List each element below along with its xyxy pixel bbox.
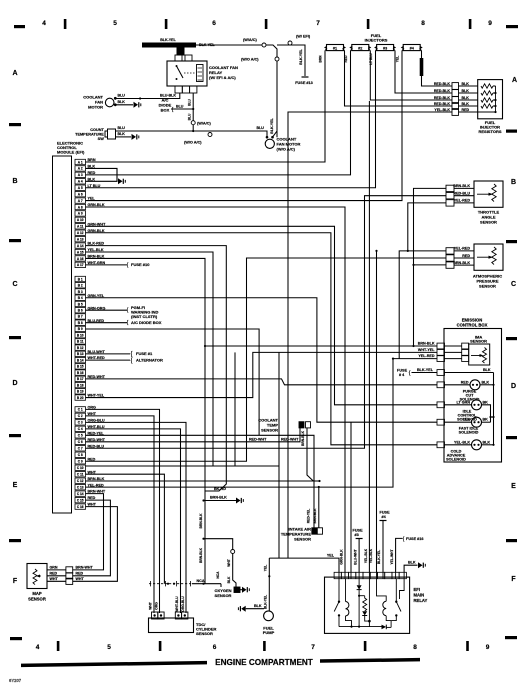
- svg-text:RED: RED: [462, 254, 470, 258]
- relay internals: [334, 579, 404, 630]
- svg-text:RED: RED: [76, 572, 84, 576]
- svg-text:BLK-YEL: BLK-YEL: [299, 48, 303, 64]
- MAP sensor: [27, 564, 93, 602]
- wire C16 WHT to MAP sensor: [73, 507, 118, 582]
- svg-text:B 8: B 8: [78, 321, 83, 325]
- svg-text:GRN: GRN: [50, 566, 58, 570]
- fast idle solenoid: [445, 417, 491, 434]
- wire B17 RED-WHT to purge cut solenoid: [86, 379, 438, 385]
- svg-text:RED-BLK: RED-BLK: [434, 89, 451, 93]
- svg-text:FUSE #13: FUSE #13: [295, 81, 313, 85]
- svg-text:(W/O A/C): (W/O A/C): [184, 141, 202, 145]
- svg-text:WHT: WHT: [227, 559, 231, 567]
- wire C11 WHT NCA: [86, 474, 165, 584]
- svg-text:YEL-WHT: YEL-WHT: [390, 549, 394, 564]
- svg-text:C 2: C 2: [78, 414, 83, 418]
- emission box connector pin: [437, 419, 445, 425]
- svg-text:WHT-YEL: WHT-YEL: [418, 348, 435, 352]
- ECM pin B18: [75, 382, 86, 387]
- A/C diode box stub: [171, 108, 193, 110]
- svg-text:YEL-BLK: YEL-BLK: [454, 440, 470, 444]
- svg-text:6Y207: 6Y207: [9, 678, 22, 683]
- svg-text:C 10: C 10: [77, 466, 84, 470]
- svg-text:A 17: A 17: [77, 263, 84, 267]
- svg-text:SENSOR: SENSOR: [196, 631, 213, 636]
- ECM pin B17: [75, 376, 86, 381]
- emission box connector pin: [437, 370, 445, 376]
- YEL-BLK wire resistor row 5: [288, 112, 452, 558]
- svg-text:MOTOR: MOTOR: [88, 105, 103, 110]
- svg-text:8: 8: [421, 20, 425, 27]
- wire feed to EFI relay cell 6: [376, 251, 378, 572]
- wire BRN-BLK common to IMA sensor: [205, 345, 437, 347]
- fuel pump: [238, 558, 274, 635]
- ground motor1: [134, 102, 141, 108]
- svg-text:(W/A/C): (W/A/C): [243, 38, 257, 42]
- svg-text:BLK: BLK: [408, 560, 416, 564]
- svg-text:B 13: B 13: [77, 352, 84, 356]
- svg-text:SOLENOID: SOLENOID: [446, 457, 466, 461]
- svg-text:BLK: BLK: [118, 100, 126, 104]
- resistor element: [481, 91, 493, 95]
- emission box connector pin: [437, 442, 445, 448]
- svg-text:5: 5: [113, 20, 117, 27]
- svg-text:RED-BLK: RED-BLK: [434, 82, 451, 86]
- ECM pin A8: [75, 204, 86, 209]
- svg-text:BLK-YEL: BLK-YEL: [160, 38, 176, 42]
- svg-text:B 14: B 14: [77, 358, 84, 362]
- svg-text:BK: BK: [483, 400, 489, 404]
- BLK vertical net: [493, 373, 495, 445]
- svg-text:BRN-WHT: BRN-WHT: [76, 566, 94, 570]
- ECM pin A17: [75, 262, 86, 267]
- wire B8 BLU-RED to A/C diode box: [86, 322, 128, 324]
- svg-text:YEL-RED: YEL-RED: [454, 247, 471, 251]
- svg-text:BRN: BRN: [319, 55, 323, 63]
- emission box connector pin: [437, 350, 445, 356]
- ECM pin B15: [75, 364, 86, 369]
- svg-text:WHT: WHT: [149, 602, 153, 610]
- svg-text:7: 7: [311, 644, 315, 651]
- throttle angle sensor: [446, 181, 503, 225]
- svg-text:SENSOR: SENSOR: [28, 596, 46, 601]
- svg-text:WHT-BLU: WHT-BLU: [175, 596, 179, 612]
- svg-text:A 2: A 2: [78, 167, 83, 171]
- svg-text:PUMP: PUMP: [263, 630, 275, 635]
- svg-text:RED-YEL: RED-YEL: [307, 509, 311, 523]
- wire C14 BRN-WHT to MAP sensor: [73, 494, 104, 570]
- coolant fan relay box U1: [167, 61, 207, 86]
- wire C5 RED-YEL to intake air temp sensor: [86, 435, 315, 527]
- svg-text:BOX: BOX: [161, 108, 170, 113]
- svg-text:B 16: B 16: [77, 371, 84, 375]
- svg-text:YEL-RED: YEL-RED: [418, 354, 435, 358]
- svg-text:BLK: BLK: [462, 82, 470, 86]
- svg-text:BLK: BLK: [482, 380, 490, 384]
- svg-text:BRN-BLK: BRN-BLK: [199, 547, 203, 563]
- ECM pin A6: [75, 191, 86, 196]
- svg-text:ORG-BLU: ORG-BLU: [181, 596, 185, 612]
- wire A15 YEL-BLK: [86, 252, 214, 466]
- svg-text:SENSOR: SENSOR: [294, 536, 311, 541]
- svg-text:BRN-BLK: BRN-BLK: [199, 513, 203, 529]
- svg-text:C 11: C 11: [77, 473, 84, 477]
- ECM pin C9: [75, 459, 86, 464]
- svg-text:YEL: YEL: [463, 418, 471, 422]
- connector (W/A/C) on relay wire: [191, 121, 195, 125]
- wire A7 YEL to injector 4: [86, 51, 403, 201]
- svg-text:YEL: YEL: [396, 56, 400, 62]
- YEL-BLK wire to EFI main relay: [368, 101, 370, 572]
- wire BRN-BLK sensor ground link throttle down: [414, 188, 447, 346]
- svg-text:{: {: [130, 352, 132, 358]
- svg-text:SENSOR: SENSOR: [261, 428, 278, 433]
- BLK to ground: [404, 565, 417, 572]
- wire A16 BRN-BLK sensor ground: [86, 258, 206, 583]
- ECM pin C15: [75, 497, 86, 502]
- svg-text:E: E: [511, 483, 516, 490]
- ground sensor shield: [236, 498, 243, 504]
- svg-text:#1: #1: [333, 47, 337, 51]
- relay coil: [197, 65, 204, 82]
- ECM pin B9: [75, 326, 86, 331]
- ground temp sw: [132, 134, 139, 140]
- svg-text:FUSE: FUSE: [380, 511, 391, 515]
- wire motor1 BLU / BLU-BLK to relay: [115, 93, 180, 99]
- ECM pin C8: [75, 452, 86, 457]
- svg-text:BRN-BLK: BRN-BLK: [313, 508, 317, 524]
- svg-text:B 1: B 1: [78, 277, 83, 281]
- svg-text:C 16: C 16: [77, 505, 84, 509]
- svg-text:A: A: [512, 77, 517, 84]
- svg-text:BLK: BLK: [462, 102, 470, 106]
- svg-text:C 6: C 6: [78, 440, 83, 444]
- wire C15 RED to MAP sensor: [73, 500, 111, 576]
- fuel injector resistors box: [478, 80, 503, 119]
- ECM pin A14: [75, 243, 86, 248]
- wire temp sw BLK to ground: [116, 136, 132, 138]
- svg-text:{: {: [130, 358, 132, 364]
- ECM pin A12: [75, 230, 86, 235]
- svg-text:YEL-BLK: YEL-BLK: [369, 548, 373, 563]
- connector (W/O A/C) hanging: [208, 133, 212, 137]
- svg-text:BLU: BLU: [176, 104, 184, 108]
- svg-text:NCA: NCA: [197, 579, 205, 583]
- svg-text:YEL: YEL: [327, 554, 335, 558]
- wire A12 GRN-BLK to cold advance solenoid: [86, 233, 438, 445]
- svg-text:B 6: B 6: [78, 309, 83, 313]
- twisted pair marker: [149, 583, 192, 585]
- fuse 13: [302, 76, 309, 78]
- coolant fan motor M1: [105, 98, 114, 107]
- ECM pin B2: [75, 283, 86, 288]
- svg-text:A 1: A 1: [78, 160, 83, 164]
- svg-text:BLK: BLK: [118, 132, 126, 136]
- thick wire segment injector 4: [420, 58, 424, 76]
- svg-text:ENGINE COMPARTMENT: ENGINE COMPARTMENT: [215, 658, 313, 667]
- wire C3 ORG-BLU to TDC sensor: [86, 422, 187, 613]
- wire C2 WHT to TDC sensor: [86, 416, 155, 613]
- svg-text:4: 4: [42, 20, 46, 27]
- wire A2 BLK / A4 BLK to ground: [86, 168, 118, 181]
- svg-text:{: {: [409, 370, 411, 376]
- resistor element: [481, 104, 493, 108]
- title ENGINE COMPARTMENT: [21, 658, 420, 667]
- svg-text:C 15: C 15: [77, 498, 84, 502]
- ECM pin C13: [75, 484, 86, 489]
- svg-text:BLK-YEL: BLK-YEL: [417, 368, 434, 372]
- svg-text:B 20: B 20: [77, 396, 84, 400]
- wire link vertical to YEL wire: [278, 352, 280, 558]
- ECM pin C7: [75, 446, 86, 451]
- svg-text:RED-BLU: RED-BLU: [453, 192, 470, 196]
- svg-text:(W/ EFI & A/C): (W/ EFI & A/C): [209, 75, 236, 80]
- svg-text:C 7: C 7: [78, 447, 83, 451]
- ECM pin B20: [75, 395, 86, 400]
- wire A14 BLK-RED: [86, 246, 227, 491]
- svg-text:MODULE (EFI): MODULE (EFI): [57, 150, 85, 155]
- svg-text:FUSE #10: FUSE #10: [131, 262, 150, 267]
- svg-text:B 11: B 11: [77, 340, 84, 344]
- intake air temperature sensor: [281, 486, 323, 541]
- ECM pin A11: [75, 224, 86, 229]
- emission box connector pin: [437, 343, 445, 349]
- ECM pin B1: [75, 276, 86, 281]
- ECM pin A1: [75, 159, 86, 164]
- svg-text:B: B: [511, 179, 516, 186]
- ECM pin C3: [75, 420, 86, 425]
- svg-text:CONTROL BOX: CONTROL BOX: [457, 323, 488, 328]
- coolant fan relay bus bar BLK-YEL: [142, 43, 196, 48]
- svg-text:BLK: BLK: [462, 96, 470, 100]
- NCA wire: [192, 583, 221, 585]
- svg-text:BLK-YEL: BLK-YEL: [263, 595, 267, 609]
- svg-text:9: 9: [486, 644, 490, 651]
- svg-text:SENSOR: SENSOR: [470, 339, 487, 344]
- resistor connector column: [452, 83, 459, 90]
- wire C9 RED to atmospheric pressure sensor: [86, 258, 447, 461]
- svg-text:(W/O A/C): (W/O A/C): [277, 147, 296, 152]
- wire motor1 BLK to ground: [115, 104, 133, 106]
- svg-text:B: B: [12, 178, 17, 185]
- svg-text:BLU: BLU: [118, 94, 126, 98]
- svg-text:BLU: BLU: [257, 126, 265, 130]
- ECM pin B7: [75, 314, 86, 319]
- wire A1 BRN to injector 1: [86, 51, 326, 162]
- oxygen sensor: [199, 513, 249, 598]
- fuse 16 callout YEL-WHT: [396, 538, 403, 572]
- svg-text:7: 7: [316, 20, 320, 27]
- svg-text:FUSE #1: FUSE #1: [136, 351, 153, 356]
- svg-text:A 3: A 3: [78, 173, 83, 177]
- ECM pin C11: [75, 472, 86, 477]
- svg-text:SENSOR: SENSOR: [480, 220, 497, 225]
- wire temp sw BLU to fan motor 2: [116, 131, 268, 137]
- svg-text:C: C: [12, 281, 17, 288]
- svg-text:RED-BLK: RED-BLK: [434, 102, 451, 106]
- svg-text:YEL-BLK: YEL-BLK: [434, 108, 450, 112]
- wire BRN-BLK branch to atmospheric sensor: [414, 264, 447, 266]
- svg-text:A 14: A 14: [77, 244, 84, 248]
- svg-text:5: 5: [107, 644, 111, 651]
- ECM pin A16: [75, 256, 86, 261]
- svg-text:BLU-WHT: BLU-WHT: [353, 549, 357, 564]
- svg-text:#3: #3: [355, 533, 359, 537]
- electronic control module (EFI) box: [53, 156, 72, 513]
- wire A17 WHT-GRN to fuse 10: [86, 264, 128, 266]
- ground fuel pump: [238, 606, 245, 612]
- ECM pin B14: [75, 357, 86, 362]
- atmospheric pressure sensor: [446, 244, 503, 289]
- TDC / cylinder sensor: [149, 596, 217, 636]
- svg-text:(W/ EFI): (W/ EFI): [296, 35, 311, 39]
- wire A3 RED to injector 2: [86, 51, 351, 175]
- ECM pin A2: [75, 166, 86, 171]
- svg-text:GRN-BLK: GRN-BLK: [339, 549, 343, 565]
- svg-text:BK-RD: BK-RD: [214, 487, 226, 491]
- wire B14 WHT-RED to alternator: [86, 359, 131, 361]
- svg-text:A 15: A 15: [77, 250, 84, 254]
- fuel injector #1: [327, 45, 344, 51]
- svg-text:BK: BK: [483, 418, 489, 422]
- svg-text:BRN-BLK: BRN-BLK: [88, 477, 105, 481]
- wire C13 YEL-RED to IMA sensor: [86, 359, 438, 488]
- svg-text:BRN-BLK: BRN-BLK: [453, 261, 470, 265]
- coolant temperature switch: [105, 129, 116, 139]
- svg-text:C 9: C 9: [78, 460, 83, 464]
- svg-text:#2: #2: [358, 47, 362, 51]
- svg-text:C 3: C 3: [78, 421, 83, 425]
- ECM pin C12: [75, 478, 86, 483]
- svg-text:C 8: C 8: [78, 453, 83, 457]
- svg-text:RED: RED: [461, 380, 469, 384]
- emission box connector pin: [437, 382, 445, 388]
- connector (W/A/C): [262, 43, 266, 47]
- purge cut solenoid: [445, 380, 495, 402]
- svg-text:B 10: B 10: [77, 333, 84, 337]
- ECM pin A3: [75, 172, 86, 177]
- emission control box: [444, 329, 502, 463]
- svg-text:#3: #3: [383, 47, 387, 51]
- svg-text:F: F: [13, 578, 18, 585]
- svg-text:B 18: B 18: [77, 383, 84, 387]
- wire C12 BRN-BLK sensor ground run: [86, 480, 320, 482]
- svg-text:RELAY: RELAY: [414, 598, 428, 603]
- connector (W/ EFI): [288, 41, 292, 45]
- svg-text:RED: RED: [50, 572, 58, 576]
- ECM pin A10: [75, 217, 86, 222]
- svg-text:LT BLU: LT BLU: [369, 53, 373, 65]
- svg-text:LT GRN: LT GRN: [457, 400, 471, 404]
- wire C4 WHT-BLU to TDC sensor: [86, 429, 181, 613]
- svg-text:B 15: B 15: [77, 365, 84, 369]
- svg-text:A 9: A 9: [78, 212, 83, 216]
- svg-text:B 7: B 7: [78, 315, 83, 319]
- svg-text:A 12: A 12: [77, 231, 84, 235]
- svg-text:B 17: B 17: [77, 377, 84, 381]
- ECM pin B13: [75, 351, 86, 356]
- ECM pin C5: [75, 433, 86, 438]
- svg-text:C: C: [511, 281, 516, 288]
- wire A11 GRN-WHT to idle control solenoid: [86, 226, 438, 404]
- svg-text:SW: SW: [98, 137, 105, 141]
- svg-text:BLK: BLK: [254, 604, 262, 608]
- ECM pin A4: [75, 179, 86, 184]
- svg-text:6: 6: [213, 644, 217, 651]
- svg-text:ORG: ORG: [154, 602, 158, 610]
- svg-text:WHT: WHT: [76, 577, 85, 581]
- svg-text:C 14: C 14: [77, 492, 84, 496]
- wire B9 row down middle: [86, 329, 260, 435]
- svg-text:B 19: B 19: [77, 390, 84, 394]
- svg-text:COUNT: COUNT: [90, 128, 104, 132]
- ECM pin B12: [75, 345, 86, 350]
- svg-text:BRN-BLK: BRN-BLK: [301, 430, 305, 446]
- wire bus to W/A/C branch: [196, 45, 277, 137]
- ECM pin B5: [75, 301, 86, 306]
- idle control solenoid: [445, 400, 495, 422]
- ECM pin B16: [75, 370, 86, 375]
- svg-text:RED: RED: [462, 108, 470, 112]
- ECM pin A9: [75, 211, 86, 216]
- svg-text:FUSE: FUSE: [397, 369, 408, 373]
- svg-text:D: D: [511, 383, 516, 390]
- svg-text:A: A: [12, 70, 17, 77]
- wire feed to EFI relay cell 3: [350, 422, 352, 572]
- svg-text:6: 6: [212, 20, 216, 27]
- svg-text:D: D: [12, 380, 17, 387]
- svg-text:C 1: C 1: [78, 408, 83, 412]
- coolant fan motor M2 (W/O A/C): [273, 131, 278, 137]
- wire C6 RED-WHT to coolant temp sensor: [86, 428, 301, 442]
- svg-text:FUSE: FUSE: [353, 529, 364, 533]
- wire B13 BLU-WHT to fuse 1: [86, 353, 131, 355]
- svg-text:C 5: C 5: [78, 434, 83, 438]
- wire relay to A/C diode box junction: [192, 93, 194, 131]
- fuel injector #3: [377, 45, 394, 51]
- ground A2/A4: [118, 178, 125, 184]
- svg-text:BLK-YEL: BLK-YEL: [377, 550, 381, 564]
- wire C1 ORG to TDC sensor: [86, 409, 160, 613]
- svg-text:B 3: B 3: [78, 290, 83, 294]
- ECM pin B19: [75, 389, 86, 394]
- svg-text:BRN-BLK: BRN-BLK: [210, 495, 227, 499]
- svg-text:BLK: BLK: [462, 89, 470, 93]
- svg-text:RED-WHT: RED-WHT: [249, 437, 267, 441]
- svg-text:A 7: A 7: [78, 199, 83, 203]
- wire A8 GRN-BLK to EFI main relay: [86, 207, 346, 572]
- resistor element: [481, 98, 493, 102]
- svg-text:B 2: B 2: [78, 284, 83, 288]
- ECM pin C14: [75, 491, 86, 496]
- svg-text:SENSOR: SENSOR: [479, 284, 496, 289]
- wire branch to fuse 13: [277, 45, 305, 76]
- ECM pin B11: [75, 339, 86, 344]
- ECM pin B3: [75, 289, 86, 294]
- svg-text:MAIN: MAIN: [414, 593, 425, 598]
- svg-text:FUSE #16: FUSE #16: [406, 537, 424, 541]
- svg-text:F: F: [511, 576, 516, 583]
- svg-text:8: 8: [413, 644, 417, 651]
- wire C7 RED-BLU to throttle angle sensor: [86, 196, 447, 449]
- svg-text:BRN-BLK: BRN-BLK: [418, 342, 435, 346]
- ECM pin A5: [75, 185, 86, 190]
- coolant temp sensor: [249, 418, 320, 482]
- svg-text:(INST CLSTR): (INST CLSTR): [131, 314, 158, 319]
- connector (W/O A/C) on vertical: [275, 57, 279, 61]
- ECM pin C16: [75, 504, 86, 509]
- relay connector strip: [334, 572, 341, 578]
